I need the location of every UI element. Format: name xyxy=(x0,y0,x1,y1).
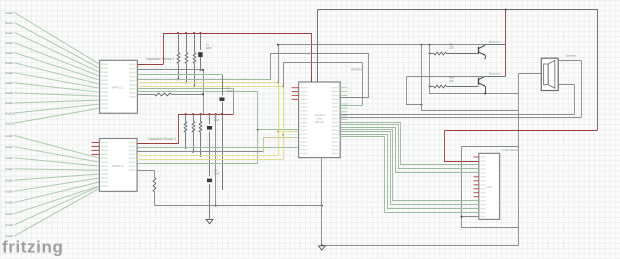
wire R6 bottom lead xyxy=(200,132,202,155)
wire R6 top lead xyxy=(200,114,202,122)
svg-text:ELE1: ELE1 xyxy=(6,21,14,25)
wire U1 pin2 gray xyxy=(137,69,203,71)
svg-text:ELE11: ELE11 xyxy=(6,121,15,125)
svg-text:ELE3: ELE3 xyxy=(6,167,14,171)
wire vertical x429 and emitter run xyxy=(430,45,519,94)
capacitor C1 xyxy=(198,52,202,57)
wire electrode E4 to U1 xyxy=(15,53,100,80)
wire C1 top lead xyxy=(200,33,202,50)
wire green shared riser x258 xyxy=(257,92,259,164)
svg-text:Speaker: Speaker xyxy=(566,54,577,58)
capacitor C2 xyxy=(207,126,212,130)
wire 3.3V drop to U3 VCC xyxy=(311,33,313,82)
U2 unconnected pin stubs (red) xyxy=(91,142,99,144)
wire C4 to ground xyxy=(209,184,211,219)
wire riser x283 to SCL row xyxy=(283,63,285,87)
wire speaker top pin xyxy=(558,60,581,62)
lcd U4 body xyxy=(479,153,500,219)
svg-text:ELE9: ELE9 xyxy=(6,101,14,105)
wire IRQ1 route up over to U3 xyxy=(271,54,369,98)
wire C1 bottom lead xyxy=(200,57,202,70)
wire LCD top frame xyxy=(462,146,519,148)
wire red drop to Q2 xyxy=(505,46,507,76)
svg-text:ELE1: ELE1 xyxy=(6,145,14,149)
wire LCD left frame down xyxy=(462,147,519,228)
wire data3 U3 to U4 xyxy=(340,130,479,201)
wire U1 IRQ green xyxy=(137,79,270,81)
wire U2 pin to R8 xyxy=(137,170,154,172)
svg-text:Buzzer1: Buzzer1 xyxy=(489,40,500,44)
U3 left unconnected stubs xyxy=(292,87,299,89)
capacitive sensor U2 body xyxy=(99,139,137,192)
wire electrode F5 to U2 xyxy=(15,178,100,191)
wire U2 VCC pin xyxy=(137,143,178,145)
wire red drop to LCD pin2 xyxy=(445,131,479,162)
wire U3 pin to x362 xyxy=(341,105,363,107)
wire Q2 collector to red xyxy=(485,76,506,78)
wire SDA vertical bus xyxy=(278,83,280,156)
wire electrode E11 to U1 xyxy=(15,108,100,123)
resistor R2 pullup xyxy=(185,53,188,64)
wire LCD pin16 stub xyxy=(462,216,479,218)
wire SDA yellow U1 xyxy=(137,82,278,84)
wire U3 to speaker top run xyxy=(341,117,582,119)
U1 left pin microlabels xyxy=(101,64,108,66)
wire R4 bottom lead xyxy=(185,132,187,148)
wire long vertical x519 xyxy=(518,74,520,246)
svg-text:ELE8: ELE8 xyxy=(6,223,14,227)
wire 5V top loop xyxy=(318,10,598,131)
wire electrode F8 to U2 xyxy=(15,186,100,225)
resistor R4 pullup xyxy=(184,122,187,133)
wire electrode F6 to U2 xyxy=(15,182,100,202)
svg-text:LCD: LCD xyxy=(486,185,493,189)
wire R7 to vertical xyxy=(172,94,204,96)
wire red 5V run to LCD area xyxy=(445,130,597,132)
wire U2 gray out xyxy=(137,151,264,153)
capacitor C3 xyxy=(220,97,225,101)
wire R8 bottom lead xyxy=(154,192,156,206)
wire speaker bottom pin drop xyxy=(574,85,576,115)
wire electrode F0 to U2 xyxy=(15,136,100,159)
wire Q1 collector to red xyxy=(485,44,506,46)
svg-text:MPR121: MPR121 xyxy=(112,86,124,90)
svg-text:ELE7: ELE7 xyxy=(6,81,14,85)
resistor R7 series xyxy=(155,93,172,96)
svg-text:Capacitive Sensor 1: Capacitive Sensor 1 xyxy=(146,57,175,61)
wire U2 SDA yellow xyxy=(137,155,278,157)
U3 top pin stubs xyxy=(311,76,313,83)
svg-text:10nF: 10nF xyxy=(214,172,220,176)
U4 unconnected pin stubs red xyxy=(474,156,479,158)
capacitor C4 xyxy=(207,179,212,183)
wire data4 U3 to U4 xyxy=(340,132,479,205)
wire U1 VCC pin xyxy=(137,64,163,66)
resistor R6 pullup xyxy=(199,122,202,133)
wire data2 U3 to U4 xyxy=(340,128,479,173)
resistor R8 xyxy=(153,178,156,192)
wire speaker top pin drop xyxy=(581,61,583,118)
svg-text:10nF: 10nF xyxy=(214,118,220,122)
transistor Q2 xyxy=(478,78,480,85)
svg-text:ELE6: ELE6 xyxy=(6,71,14,75)
wire U2 green direct to U3 xyxy=(137,147,299,149)
ground G2 xyxy=(318,246,325,250)
wire 3.3V rail top xyxy=(163,33,311,35)
wire C3 top lead xyxy=(222,75,224,96)
wire electrode F4 to U2 xyxy=(15,174,100,180)
wire electrode E10 to U1 xyxy=(15,104,100,113)
U4 left pin microlabels xyxy=(480,156,485,157)
wire electrode E7 to U1 xyxy=(15,83,100,92)
wire green to U3 pin xyxy=(258,129,299,131)
ground G1 xyxy=(206,219,213,223)
wire electrode E3 to U1 xyxy=(15,43,100,76)
wire riser x278 to SDA row xyxy=(278,45,280,83)
U3 right stubs xyxy=(340,87,347,89)
wire C2 top lead xyxy=(209,114,211,124)
wire U route x406 xyxy=(407,77,422,105)
wire red drop to Q1 xyxy=(505,10,507,47)
wire U1 green row9 xyxy=(137,88,233,90)
wire R8 top lead xyxy=(154,171,156,178)
wire long ground run y205 xyxy=(155,205,322,207)
wire 3.3V rail 2 xyxy=(178,114,234,116)
svg-text:ELE2: ELE2 xyxy=(6,31,14,35)
wire rail2 drop to U2 VCC xyxy=(178,114,180,144)
wire vertical x215 to gnd wire xyxy=(215,114,217,206)
wire drop x233 to rail2 xyxy=(233,89,235,115)
wire electrode E1 to U1 xyxy=(15,23,100,69)
U2 right pin microlabels xyxy=(129,142,136,144)
svg-text:LCD Screen: LCD Screen xyxy=(502,148,519,152)
wire y62 over route xyxy=(283,62,362,64)
resistor R3 pullup xyxy=(193,53,196,64)
speaker SP1 glyph xyxy=(544,64,549,85)
resistor R10 base 220 xyxy=(434,85,447,88)
svg-text:ELE0: ELE0 xyxy=(6,134,14,138)
svg-text:Capacitive Sensor 2: Capacitive Sensor 2 xyxy=(148,137,177,141)
wire U3 gnd down xyxy=(321,158,323,246)
wire electrode F9 to U2 xyxy=(15,188,100,236)
svg-text:ELE0: ELE0 xyxy=(6,11,14,15)
wire R9 to Q1 base xyxy=(447,53,479,55)
U3 right pin microlabels xyxy=(332,87,339,88)
svg-text:ELE3: ELE3 xyxy=(6,41,14,45)
svg-text:220: 220 xyxy=(449,46,454,50)
svg-text:ELE5: ELE5 xyxy=(6,190,14,194)
wire data5 U3 to U4 xyxy=(340,135,479,209)
wire Q2 collector run left xyxy=(406,76,485,78)
svg-text:(Rev3): (Rev3) xyxy=(315,120,324,124)
wire electrode E9 to U1 xyxy=(15,100,100,103)
wire U2 green to shared riser xyxy=(137,163,258,165)
wire long gnd run y245 xyxy=(322,245,519,247)
wire electrode E5 to U1 xyxy=(15,63,100,84)
U3 left pin microlabels xyxy=(300,87,307,88)
wire U2 SCL yellow xyxy=(137,159,283,161)
wire electrode E0 to U1 xyxy=(15,13,100,65)
svg-text:ELE10: ELE10 xyxy=(6,111,16,115)
wire electrode F7 to U2 xyxy=(15,186,100,214)
wire R2 top lead xyxy=(186,33,188,53)
svg-text:ELE8: ELE8 xyxy=(6,91,14,95)
wire R1 top lead xyxy=(178,33,180,53)
capacitive sensor U1 body xyxy=(100,60,138,113)
wire speaker bottom pin xyxy=(558,84,574,86)
U2 left pin microlabels xyxy=(101,142,108,144)
wire C2 to C4 xyxy=(209,131,211,176)
wire 3.3V drop to U1 VCC xyxy=(163,33,165,65)
wire R1 bottom lead xyxy=(178,63,180,79)
wire SDA to U3 A4 xyxy=(279,131,299,133)
wire electrode F2 to U2 xyxy=(15,158,100,166)
mcu U3 body xyxy=(299,82,341,158)
wire U1 pin3 green to C3 xyxy=(137,74,222,76)
wire vertical x421 and run right xyxy=(422,45,519,111)
resistor R9 base 220 xyxy=(434,52,447,55)
wire data6 U3 to U4 xyxy=(340,137,479,213)
wire data1 U3 to U4 xyxy=(340,125,479,169)
wire R10 left lead xyxy=(430,86,434,88)
svg-text:220: 220 xyxy=(449,79,454,83)
wire vertical to rail2 xyxy=(203,70,205,114)
wire R4 top lead xyxy=(185,114,187,122)
svg-text:Arduino: Arduino xyxy=(351,68,362,72)
wire R7 left lead xyxy=(137,94,154,96)
svg-text:MPR121: MPR121 xyxy=(112,164,124,168)
resistor R1 pullup xyxy=(177,53,180,64)
wire electrode E2 to U1 xyxy=(15,33,100,73)
wire electrode F1 to U2 xyxy=(15,147,100,163)
wire U1 green to arduino xyxy=(137,91,257,93)
wire SCL vertical bus xyxy=(283,87,285,160)
wire R3 top lead xyxy=(194,33,196,53)
svg-text:Buzzer2: Buzzer2 xyxy=(489,71,500,75)
wire R2 bottom lead xyxy=(186,63,188,82)
wire collector run left xyxy=(278,44,485,46)
svg-text:ELE4: ELE4 xyxy=(6,178,14,182)
wire route to U3 A5 xyxy=(264,138,299,153)
wire U3 to speaker bottom run xyxy=(341,114,575,116)
wire R5 top lead xyxy=(193,114,195,122)
svg-text:10nF: 10nF xyxy=(227,89,233,93)
wire electrode F3 to U2 xyxy=(15,169,100,170)
svg-text:ELE4: ELE4 xyxy=(6,51,14,55)
svg-text:fritzing: fritzing xyxy=(2,238,63,257)
svg-text:ELE2: ELE2 xyxy=(6,156,14,160)
wire electrode E6 to U1 xyxy=(15,73,100,88)
wire R10 to Q2 base xyxy=(447,86,479,88)
resistor R5 pullup xyxy=(192,122,195,133)
wire R3 bottom lead xyxy=(194,63,196,86)
wire data0 U3 to U4 xyxy=(340,123,479,165)
wire R9 left lead xyxy=(430,53,434,55)
wire SCL yellow U1 xyxy=(137,86,283,88)
wire speaker left pin xyxy=(518,73,541,75)
svg-text:ELE5: ELE5 xyxy=(6,61,14,65)
speaker SP1 body xyxy=(541,58,558,90)
svg-text:ELE7: ELE7 xyxy=(6,212,14,216)
transistor Q1 xyxy=(478,47,480,54)
wire electrode E8 to U1 xyxy=(15,93,100,96)
wire vertical x362 xyxy=(362,63,364,106)
U1 right pin microlabels xyxy=(129,64,136,65)
wire C3 bottom lead long xyxy=(222,102,224,190)
svg-text:ELE6: ELE6 xyxy=(6,201,14,205)
wire R5 bottom lead xyxy=(193,132,195,151)
svg-text:10nF: 10nF xyxy=(206,46,212,50)
